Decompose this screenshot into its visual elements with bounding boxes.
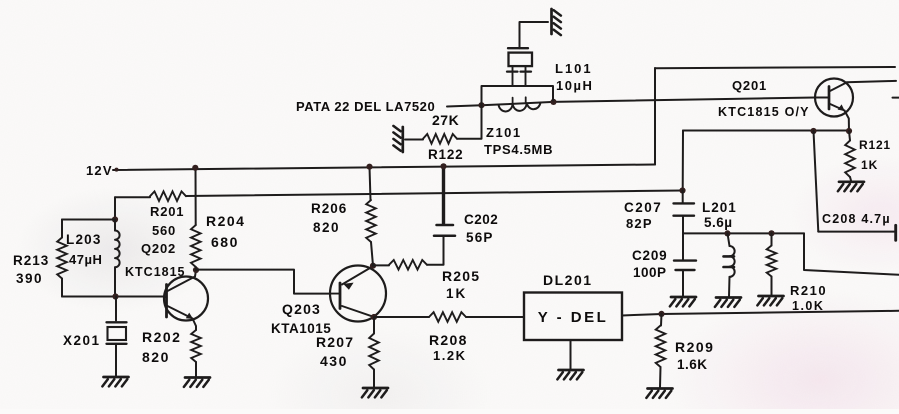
wire L203 riser <box>114 197 116 219</box>
inductor L201 coil <box>728 233 730 246</box>
svg-text:KTC1815: KTC1815 <box>125 265 186 279</box>
ground under R207 <box>362 388 388 397</box>
svg-text:1.0K: 1.0K <box>792 299 824 313</box>
svg-text:Q201: Q201 <box>732 78 767 93</box>
svg-text:R204: R204 <box>206 213 245 229</box>
resistor R204 680 <box>195 168 197 225</box>
svg-text:1K: 1K <box>446 286 467 301</box>
svg-text:Z101: Z101 <box>486 125 522 140</box>
wire C207 riser from emitter bus <box>682 131 684 191</box>
wire base rail <box>62 296 164 298</box>
ground under R121 <box>838 182 864 191</box>
svg-text:L101: L101 <box>555 61 593 76</box>
node junction Q203 collector <box>371 314 377 320</box>
svg-text:1K: 1K <box>861 158 878 172</box>
wire trap bus <box>683 232 804 234</box>
svg-text:Q203: Q203 <box>282 301 321 317</box>
node junction 12V C202 <box>440 163 446 169</box>
svg-text:Q202: Q202 <box>141 241 176 256</box>
wire Q201 emitter down <box>845 111 850 132</box>
ground under R210 <box>757 296 783 305</box>
resistor R201 560 <box>150 191 186 201</box>
resistor R209 1.6K <box>660 314 663 326</box>
svg-text:Y - DEL: Y - DEL <box>538 309 609 326</box>
wire Z101 top plate <box>508 47 528 49</box>
ground under X201 <box>102 377 128 386</box>
svg-text:27K: 27K <box>432 112 459 128</box>
wire emitter node bus <box>683 130 849 132</box>
crystal X201 <box>115 297 117 321</box>
resistor R213 390 <box>61 220 63 238</box>
svg-text:C208 4.7µ: C208 4.7µ <box>822 212 891 226</box>
wire rail to R213 top <box>62 219 115 221</box>
resistor R202 820 <box>191 330 201 362</box>
svg-text:1.2K: 1.2K <box>433 348 466 363</box>
node junction R209 top <box>658 311 664 317</box>
svg-text:R121: R121 <box>859 138 891 152</box>
capacitor C208 4.7u <box>818 231 894 233</box>
ground for R122 <box>393 126 402 152</box>
node junction X201 top <box>112 293 118 299</box>
wire R201 left stub <box>115 196 150 198</box>
resistor R205 1K <box>373 264 389 266</box>
wire Z101 hat <box>482 86 554 104</box>
svg-text:L201: L201 <box>702 200 737 215</box>
wire R201 line to C207 node <box>186 191 683 197</box>
wire 12V rail <box>113 165 655 171</box>
wire Q202 emitter to R202 <box>193 319 197 331</box>
wire C208 riser <box>814 131 819 232</box>
wire ground to R122 <box>405 139 423 141</box>
wire top bus to right edge <box>655 67 895 68</box>
capacitor C209 100P <box>682 233 684 259</box>
svg-text:C209: C209 <box>632 248 667 263</box>
capacitor C207 82P <box>682 191 684 203</box>
wire DL201 output line <box>622 311 899 316</box>
resistor R206 820 <box>370 167 371 200</box>
node junction R210 top <box>768 230 774 236</box>
capacitor C202 56P <box>442 167 445 223</box>
transistor Q201 <box>815 79 853 117</box>
ground under L201 <box>715 298 741 307</box>
svg-text:820: 820 <box>142 349 170 365</box>
node junction resonator left <box>478 102 484 108</box>
wire resonator line to Q201 base <box>482 98 816 106</box>
resistor R122 27K <box>423 134 457 144</box>
node junction C208 drop <box>810 128 816 134</box>
svg-text:C202: C202 <box>464 212 498 227</box>
svg-text:R201: R201 <box>150 204 184 219</box>
svg-text:R208: R208 <box>429 332 468 348</box>
node junction 12V R204 <box>192 165 198 171</box>
wire stub right edge <box>893 97 899 99</box>
inductor L203 47uH <box>114 220 116 231</box>
wire DL201 ground stub <box>570 340 572 369</box>
node 12V terminal <box>115 168 119 172</box>
node junction C207 top <box>679 187 685 193</box>
wire Q202 collector <box>195 270 196 277</box>
resistor R208 1.2K <box>374 316 429 318</box>
wire Z101 legs <box>512 73 514 86</box>
svg-text:KTC1815 O/Y: KTC1815 O/Y <box>718 105 810 119</box>
wire 12V riser <box>654 68 656 165</box>
svg-text:12V: 12V <box>86 163 113 178</box>
svg-text:820: 820 <box>313 220 340 235</box>
resistor R210 1.0K <box>771 233 773 245</box>
inductor loops under Z101 line <box>499 103 541 112</box>
wire Q201 collector to edge <box>847 81 897 82</box>
wire trap bus step to edge <box>804 233 899 274</box>
svg-text:430: 430 <box>320 353 348 369</box>
resistor R121 1K <box>849 131 850 141</box>
ground under R209 <box>646 389 672 398</box>
svg-text:R209: R209 <box>675 339 714 355</box>
svg-text:L203: L203 <box>66 232 102 247</box>
svg-text:680: 680 <box>211 234 239 250</box>
svg-text:R122: R122 <box>428 147 463 162</box>
ground above Z101 <box>552 9 561 35</box>
svg-text:R210: R210 <box>790 283 827 298</box>
node junction L201 top <box>724 230 730 236</box>
delay line DL201 box <box>524 293 622 341</box>
wire R122 to resonator line <box>457 105 482 139</box>
node junction Q203 emitter top <box>370 263 376 269</box>
svg-text:56P: 56P <box>466 230 494 245</box>
transistor Q203 <box>330 266 386 322</box>
svg-text:R213: R213 <box>13 253 49 268</box>
svg-text:100P: 100P <box>633 265 667 280</box>
svg-text:R202: R202 <box>142 329 181 345</box>
svg-text:82P: 82P <box>626 216 653 231</box>
ground under R202 <box>184 378 210 387</box>
svg-text:PATA 22 DEL LA7520: PATA 22 DEL LA7520 <box>296 99 435 114</box>
node junction 12V R206 <box>366 164 372 170</box>
svg-text:1.6K: 1.6K <box>677 357 708 372</box>
svg-text:5.6µ: 5.6µ <box>704 215 733 230</box>
node junction Q202 collector <box>193 267 199 273</box>
wire input dash from LA7520 pin 22 <box>447 105 482 106</box>
wire Q202 collector to Q203 base <box>196 270 330 294</box>
ground under C209 <box>670 297 696 306</box>
svg-text:560: 560 <box>152 223 176 238</box>
svg-text:390: 390 <box>16 271 43 286</box>
svg-text:DL201: DL201 <box>543 272 593 288</box>
svg-text:47µH: 47µH <box>69 252 102 267</box>
transistor Q202 <box>164 277 208 321</box>
node junction L203 top <box>112 216 118 222</box>
svg-text:R207: R207 <box>316 334 354 350</box>
node junction R121 top <box>846 128 852 134</box>
resistor R207 430 <box>373 317 375 334</box>
svg-text:TPS4.5MB: TPS4.5MB <box>484 142 553 157</box>
resonator Z101 body <box>509 53 533 67</box>
svg-text:R205: R205 <box>442 268 480 284</box>
node junction resonator right <box>550 99 556 105</box>
svg-text:R206: R206 <box>311 201 347 216</box>
ground under DL201 <box>557 370 583 379</box>
svg-text:10µH: 10µH <box>556 78 593 93</box>
svg-text:X201: X201 <box>63 333 101 348</box>
svg-text:C207: C207 <box>624 200 662 215</box>
wire Z101 to ground <box>520 22 549 48</box>
